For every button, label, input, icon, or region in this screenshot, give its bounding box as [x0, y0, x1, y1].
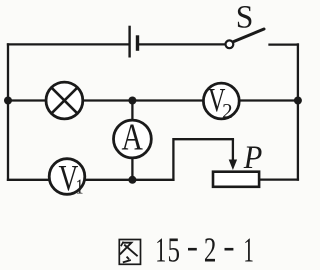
battery cell long plate [128, 26, 130, 58]
svg-text:5: 5 [167, 230, 180, 269]
lamp cross [51, 87, 77, 113]
wire left vertical [7, 44, 9, 179]
wire ammeter vertical [131, 101, 133, 180]
svg-text:1: 1 [243, 230, 254, 269]
svg-text:P: P [243, 139, 262, 175]
junction node right [294, 97, 302, 105]
wire top-left to battery [8, 43, 129, 45]
svg-text:A: A [121, 117, 143, 158]
svg-text:1: 1 [76, 175, 84, 199]
wire middle branch [8, 99, 298, 101]
junction node left [4, 97, 12, 105]
junction node center bottom [128, 176, 136, 184]
voltmeter V1 circle [49, 159, 85, 195]
rheostat P box [213, 172, 259, 187]
voltmeter V2 circle [203, 83, 239, 119]
wire battery to switch [139, 43, 225, 45]
battery cell short plate [136, 35, 139, 51]
switch S lever [233, 29, 264, 42]
wire step up to wiper [173, 139, 233, 180]
wire rheostat to bottom-right corner [260, 178, 298, 180]
svg-text:1: 1 [155, 230, 166, 269]
wire switch to top-right corner [270, 43, 298, 45]
wire bottom branch [8, 179, 173, 181]
caption character tu (图) [119, 240, 140, 265]
lamp L circle [46, 82, 83, 119]
svg-text:2: 2 [204, 230, 217, 269]
ammeter A circle [113, 120, 151, 158]
rheostat wiper arrow [232, 139, 234, 161]
svg-text:S: S [236, 0, 254, 35]
wire right vertical [297, 44, 299, 179]
switch S pivot circle [226, 40, 234, 48]
junction node center top [128, 97, 136, 105]
svg-text:2: 2 [222, 99, 233, 123]
